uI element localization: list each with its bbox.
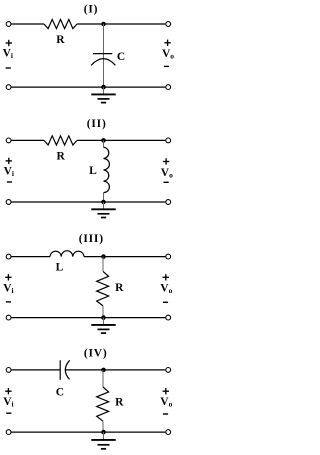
node junction top III <box>101 254 106 259</box>
label Vo IV <box>163 390 169 392</box>
capacitor C (shunt) I <box>91 54 115 66</box>
terminal bottom-left III <box>6 315 11 320</box>
label Vo I <box>164 42 170 44</box>
terminal bottom-left I <box>6 85 11 90</box>
resistor R (shunt) III <box>97 271 109 306</box>
terminal top-right I <box>166 22 171 27</box>
svg-text:Vo: Vo <box>161 167 173 180</box>
wire inductor stub top II <box>103 140 105 147</box>
ground <box>91 318 115 334</box>
wire node to right terminal IV <box>104 369 166 371</box>
wire node to right terminal I <box>104 23 166 25</box>
wire bottom bus II <box>12 201 166 203</box>
wire resistor stub bottom IV <box>102 421 104 432</box>
svg-text:Vi: Vi <box>4 166 14 179</box>
wire resistor stub bottom III <box>102 306 104 318</box>
svg-text:(I): (I) <box>84 3 99 15</box>
ground <box>91 202 115 218</box>
svg-text:C: C <box>117 51 125 63</box>
wire inductor stub bottom II <box>103 193 105 202</box>
terminal top-left I <box>6 22 11 27</box>
terminal top-right II <box>166 138 171 143</box>
terminal bottom-left II <box>6 200 11 205</box>
label Vi I <box>6 42 12 44</box>
resistor R (shunt) IV <box>97 387 109 421</box>
svg-text:(III): (III) <box>79 233 104 245</box>
ground <box>91 87 115 103</box>
label Vi II <box>6 160 12 162</box>
node junction top II <box>101 138 106 143</box>
resistor R (series) I <box>44 19 77 28</box>
wire node to right terminal III <box>104 256 166 258</box>
terminal bottom-right IV <box>166 430 171 435</box>
terminal top-right III <box>166 254 171 259</box>
wire top-left IV <box>12 369 61 371</box>
wire resistor to node II <box>77 139 104 141</box>
wire bottom bus I <box>12 86 166 88</box>
svg-text:Vo: Vo <box>162 48 174 61</box>
svg-text:R: R <box>115 397 124 409</box>
label Vo III <box>163 276 169 278</box>
svg-text:Vo: Vo <box>160 282 172 295</box>
svg-text:R: R <box>115 282 124 294</box>
terminal top-left III <box>6 254 11 259</box>
label Vo II <box>163 161 169 163</box>
terminal bottom-left IV <box>6 430 11 435</box>
svg-text:Vi: Vi <box>3 282 13 295</box>
svg-text:C: C <box>56 387 64 399</box>
node junction bottom IV <box>101 430 106 435</box>
terminal top-left IV <box>6 368 11 373</box>
svg-text:L: L <box>89 165 97 177</box>
svg-text:(IV): (IV) <box>84 347 108 359</box>
wire node to right terminal II <box>104 139 166 141</box>
wire capacitor vertical I <box>103 24 105 87</box>
wire bottom bus IV <box>12 431 166 433</box>
svg-text:Vo: Vo <box>160 396 172 409</box>
wire capacitor to node IV <box>66 369 104 371</box>
wire resistor stub top IV <box>102 370 104 387</box>
ground <box>91 432 115 449</box>
terminal bottom-right I <box>166 85 171 90</box>
node junction bottom II <box>101 200 106 205</box>
label Vi IV <box>5 390 11 392</box>
svg-text:Vi: Vi <box>3 396 13 409</box>
terminal bottom-right II <box>166 200 171 205</box>
terminal bottom-right III <box>166 315 171 320</box>
node junction top I <box>101 22 106 27</box>
svg-text:Vi: Vi <box>3 47 13 60</box>
wire resistor to node I <box>77 23 104 25</box>
capacitor C (series) IV <box>60 360 69 380</box>
wire top-left I <box>12 23 45 25</box>
label Vi III <box>5 276 11 278</box>
wire top-left III <box>12 256 51 258</box>
svg-text:(II): (II) <box>87 118 107 130</box>
inductor L (shunt) II <box>104 147 110 192</box>
terminal top-right IV <box>166 368 171 373</box>
wire bottom bus III <box>12 317 166 319</box>
resistor R (series) II <box>44 136 77 145</box>
node junction bottom I <box>101 85 106 90</box>
node junction bottom III <box>101 315 106 320</box>
svg-text:L: L <box>56 262 64 274</box>
svg-text:R: R <box>57 151 66 163</box>
wire resistor stub top III <box>102 257 104 272</box>
wire top-left II <box>12 139 45 141</box>
svg-text:R: R <box>56 34 65 46</box>
wire inductor to node III <box>84 256 104 258</box>
inductor L (series) III <box>50 251 84 257</box>
terminal top-left II <box>6 138 11 143</box>
node junction top IV <box>101 368 106 373</box>
